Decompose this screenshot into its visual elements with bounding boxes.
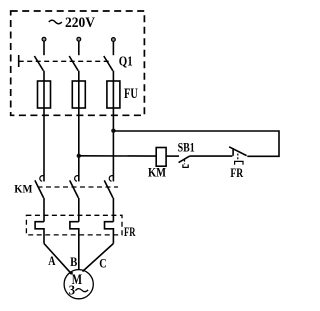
svg-text:220V: 220V bbox=[65, 15, 95, 31]
svg-text:KM: KM bbox=[148, 166, 166, 180]
svg-text:KM: KM bbox=[14, 183, 32, 195]
svg-text:Q1: Q1 bbox=[119, 55, 133, 70]
svg-text:FR: FR bbox=[230, 166, 243, 180]
svg-text:FU: FU bbox=[124, 86, 138, 102]
svg-text:B: B bbox=[70, 255, 77, 269]
svg-text:3: 3 bbox=[69, 283, 75, 298]
svg-text:A: A bbox=[48, 254, 55, 268]
svg-text:FR: FR bbox=[124, 225, 136, 239]
svg-text:SB1: SB1 bbox=[178, 140, 195, 155]
svg-text:C: C bbox=[99, 256, 106, 270]
